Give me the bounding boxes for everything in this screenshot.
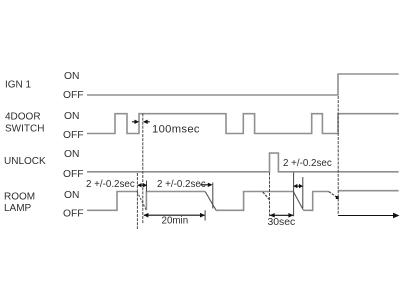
svg-text:SWITCH: SWITCH	[5, 123, 44, 134]
svg-text:OFF: OFF	[63, 90, 84, 101]
svg-text:ON: ON	[64, 149, 79, 160]
svg-text:2 +/-0.2sec: 2 +/-0.2sec	[86, 179, 135, 190]
svg-text:20min: 20min	[162, 216, 189, 227]
svg-text:ON: ON	[64, 111, 79, 122]
svg-text:OFF: OFF	[63, 130, 84, 141]
svg-text:OFF: OFF	[63, 169, 84, 180]
svg-text:30sec: 30sec	[268, 217, 296, 228]
svg-text:LAMP: LAMP	[4, 203, 32, 214]
svg-text:100msec: 100msec	[152, 123, 200, 135]
svg-text:ROOM: ROOM	[4, 191, 35, 202]
svg-text:OFF: OFF	[63, 208, 84, 219]
svg-text:UNLOCK: UNLOCK	[4, 156, 46, 167]
svg-text:ON: ON	[64, 190, 79, 201]
svg-text:ON: ON	[64, 71, 79, 82]
svg-text:IGN 1: IGN 1	[5, 80, 32, 91]
svg-text:2 +/-0.2sec: 2 +/-0.2sec	[283, 158, 332, 169]
svg-text:2 +/-0.2sec: 2 +/-0.2sec	[157, 179, 206, 190]
svg-text:4DOOR: 4DOOR	[5, 112, 41, 123]
